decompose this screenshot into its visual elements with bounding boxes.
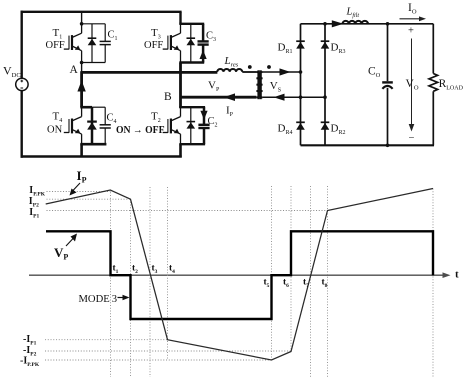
level line -I_P1 [45, 339, 168, 341]
node: C_O bottom junction [386, 144, 390, 148]
wire: secondary bottom to rectifier right leg (arrow left) [263, 96, 325, 98]
wire: rectifier bottom node to output [301, 144, 435, 146]
waveform time axis [29, 272, 451, 278]
diode D_R3 [321, 41, 330, 48]
inductor L_res [217, 69, 242, 72]
diode: T4 antiparallel diode (conducting, bold) [91, 107, 94, 144]
svg-text:A: A [70, 64, 79, 76]
wire: left leg T1 to node A [81, 63, 83, 73]
trace I_P (primary current) [46, 189, 433, 361]
transformer secondary winding [258, 72, 262, 97]
wire: top DC rail [21, 11, 182, 13]
label V_P (waveform) with arrow [54, 234, 77, 262]
svg-text:OFF: OFF [46, 40, 65, 51]
node: V_S top junction [299, 70, 303, 74]
wire: node A to L_res (bold) [82, 71, 218, 74]
transformer core [257, 70, 259, 99]
label MODE 3 with arrow [79, 294, 130, 305]
wire: rectifier left leg [300, 24, 302, 146]
gridline t5 vertical [271, 186, 273, 360]
wire: T3 branch top (bold to C3) [179, 23, 204, 25]
wire: right leg through node B (bold) [179, 63, 182, 108]
wire: T4 emitter leg to bottom rail (bold) [80, 144, 83, 157]
gridline t6 vertical [290, 186, 292, 352]
svg-text:B: B [164, 91, 172, 103]
wire: T4 branch bottom (bold) [80, 143, 106, 146]
wire: node A down to T4 (bold, current arrow up) [80, 71, 83, 107]
diode D_R1 [296, 41, 305, 48]
svg-text:t: t [455, 269, 459, 281]
trace V_P (bold square wave) [46, 231, 433, 319]
svg-text:OFF: OFF [144, 40, 163, 51]
wire: left DC rail lower [21, 91, 23, 158]
wire: T3 branch bottom (bold) [179, 61, 204, 63]
svg-text:ON → OFF: ON → OFF [116, 124, 165, 136]
svg-text:MODE 3: MODE 3 [79, 294, 118, 305]
transistor T4 (IGBT) [64, 107, 82, 144]
wire: bottom DC rail [21, 155, 182, 157]
svg-text:−: − [409, 133, 415, 144]
node: secondary bottom crossing [299, 95, 303, 99]
node: T1 branch bottom junction [80, 61, 84, 65]
wire: T1 branch bottom [82, 62, 106, 64]
capacitor C2 (bold, charging arrow down) [203, 107, 206, 125]
inductor L_filt [343, 21, 369, 24]
level line -I_P2 [45, 350, 291, 352]
level line I_P.PK [47, 191, 111, 193]
transistor T2 (IGBT) [163, 107, 181, 144]
gridline t3 vertical [149, 187, 151, 377]
node: right leg AC junction [323, 95, 327, 99]
svg-text:ON: ON [47, 125, 63, 136]
level line I_P2 [47, 198, 131, 200]
wire: T2 branch bottom (bold) [179, 143, 205, 145]
wire: rectifier right leg [324, 24, 326, 146]
transformer primary winding [256, 72, 260, 97]
wire: T1 branch top [82, 23, 106, 25]
transformer polarity dot (primary) [248, 65, 252, 69]
wire: rectifier top node to output [301, 23, 434, 25]
gridline t1 vertical [110, 190, 112, 378]
label I_P (waveform) with arrow [70, 168, 87, 196]
gridline t2 vertical [130, 199, 132, 377]
gridline end-of-cycle vertical [432, 189, 434, 378]
gridline t4 vertical [167, 187, 169, 360]
DC source V_DC [16, 78, 28, 90]
gridline t8 vertical [327, 186, 329, 377]
gridline t7 vertical [310, 186, 312, 377]
wire: secondary top to rectifier (V_S arrow right) [263, 71, 301, 73]
wire: node B to primary bottom (bold, I_P arrow left) [181, 96, 257, 99]
capacitor C3 (bold, charging arrow up) [202, 24, 205, 42]
capacitor C1 [104, 24, 106, 42]
level line I_P1 [47, 210, 328, 212]
wire: L_res to primary [242, 71, 256, 73]
wire: T2 branch top (bold to C2) [179, 106, 205, 108]
svg-text:+: + [408, 26, 414, 37]
annotation V_O arrow [408, 26, 415, 145]
annotation I_O arrow [400, 16, 427, 21]
node: T1 branch top junction [80, 22, 84, 26]
wire: T4 branch top (bold to diode) [80, 106, 92, 109]
wire: T2 emitter leg to bottom rail (bold) [179, 144, 182, 157]
diode D_R2 [321, 122, 330, 129]
diode D_R4 [296, 122, 305, 129]
wire arrow into L_filt [332, 20, 344, 27]
wire: T1 collector feed from top rail [81, 12, 83, 24]
resistor R_LOAD [429, 24, 438, 146]
transistor T3 (IGBT) [163, 24, 181, 63]
node: C_O top junction [386, 22, 390, 26]
diode: T3 antiparallel diode [190, 24, 192, 63]
capacitor C4 [104, 107, 106, 125]
capacitor C_O [382, 24, 393, 146]
transformer polarity dot (secondary) [267, 65, 271, 69]
diode: T1 antiparallel diode [91, 24, 93, 63]
diode: T2 antiparallel diode [190, 107, 192, 144]
node: rectifier top right junction [323, 22, 327, 26]
wire: T3 collector feed from top rail [179, 12, 181, 24]
wire: left DC rail upper [21, 11, 23, 79]
level line -I_P.PK [45, 359, 272, 361]
transistor T1 (IGBT) [64, 24, 82, 63]
